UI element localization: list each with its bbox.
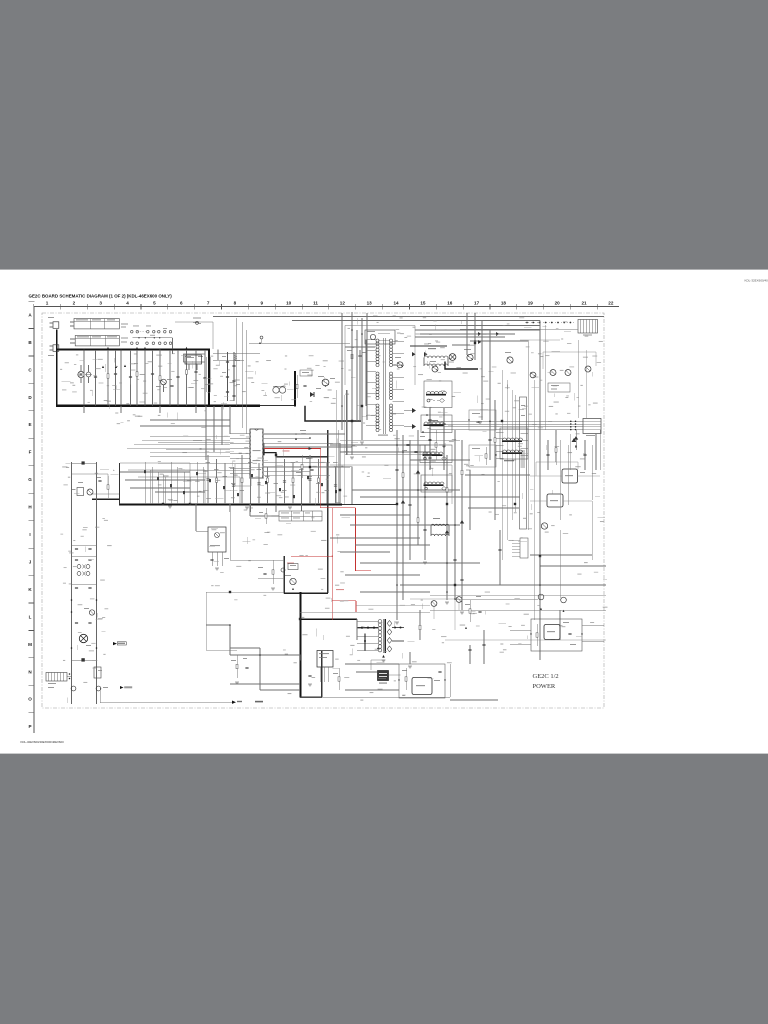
standby ic parts	[308, 675, 311, 676]
red net bottom stub	[355, 601, 357, 612]
top ruler tick marks	[33, 304, 35, 310]
filter pin stubs	[70, 321, 74, 323]
thick drop from transformer	[294, 371, 296, 407]
staircase wire b	[138, 477, 240, 504]
filter labels right	[121, 324, 128, 325]
relay drive wires	[371, 660, 401, 675]
red net feedback horizontal	[264, 448, 320, 450]
right rail vertical long	[539, 321, 541, 621]
right verticals cluster	[501, 370, 503, 560]
warning triangle d	[102, 366, 104, 368]
svg-text:E: E	[28, 422, 31, 427]
svg-text:12: 12	[340, 300, 346, 305]
ladder rung dark sq	[72, 659, 97, 661]
controller IC6100 scalloped sides	[249, 431, 252, 435]
AC thick bus top rail	[57, 349, 209, 351]
svg-text:J: J	[29, 559, 32, 564]
bottom right small parts	[469, 600, 471, 622]
extra caps	[395, 469, 398, 470]
transformer T6201 block	[424, 381, 452, 408]
sec rect diode2	[412, 424, 416, 429]
pfc parts cluster	[318, 376, 324, 377]
varistor pair lower	[77, 572, 81, 576]
varistor partner	[86, 372, 91, 377]
sec caps2	[443, 408, 445, 470]
opto wires	[530, 476, 600, 501]
red label mid	[287, 563, 294, 564]
fb region wires	[230, 559, 284, 561]
extra diodes	[416, 470, 420, 474]
board outline dash-dot frame	[42, 313, 604, 708]
transformer T6302 pins	[496, 431, 504, 433]
upper right wires frame	[520, 340, 596, 369]
ladder left rail	[71, 462, 73, 704]
bold corner top right of T6201	[445, 362, 478, 370]
pfc small parts	[167, 379, 172, 380]
controller IC6100 body	[250, 429, 263, 478]
standby transformer pins	[357, 621, 378, 623]
dotted feed row	[525, 322, 576, 324]
transformer T6100 right winding lower	[389, 372, 392, 375]
loop wire upper rect	[345, 326, 415, 386]
center vertical bundle	[335, 390, 337, 504]
red label lower	[336, 589, 344, 590]
red label near coil	[283, 450, 290, 451]
bus extension medium	[260, 405, 296, 407]
IC6100 right pins upper	[264, 433, 296, 435]
svg-text:11: 11	[313, 300, 318, 305]
upper right box	[548, 383, 570, 392]
red junction dot2	[332, 556, 333, 557]
connector link to ladder	[67, 675, 72, 677]
right long verticals	[544, 325, 546, 430]
svg-text:16: 16	[447, 300, 453, 305]
svg-text:10: 10	[286, 300, 292, 305]
right area wires	[430, 609, 606, 611]
svg-text:22: 22	[608, 300, 614, 305]
svg-text:5: 5	[153, 300, 156, 305]
sec rect diode1	[412, 408, 416, 413]
ladder caps row b	[72, 555, 97, 557]
wire junction small comp	[259, 342, 261, 344]
extra junction dots	[396, 444, 398, 446]
svg-text:P: P	[28, 724, 31, 729]
q small upper right	[550, 370, 556, 376]
filter labels small	[133, 325, 139, 328]
startup parts	[98, 480, 101, 481]
fb small parts	[272, 560, 274, 584]
white schematic sheet	[0, 270, 768, 754]
photo circle a	[71, 686, 76, 691]
dark stub right mid	[539, 556, 541, 584]
svg-text:2: 2	[73, 300, 76, 305]
standby bold hook	[364, 634, 366, 651]
relay small dark box	[378, 671, 389, 681]
bus top wire right half	[292, 320, 540, 322]
ladder caps row a	[72, 544, 97, 546]
bottom mid wires	[205, 592, 207, 650]
staircase wire c	[330, 465, 452, 504]
AC inlet plug lower	[53, 345, 59, 352]
junction dots on top rail	[83, 349, 85, 351]
cap symbols on dividers	[94, 376, 97, 377]
input divider vertical wires	[83, 350, 85, 406]
svg-text:+: +	[113, 468, 115, 472]
output wire bundle	[430, 420, 583, 422]
connector CN6004 4pin	[583, 419, 601, 434]
regulator IC6500 box	[208, 527, 226, 552]
relay RY6001 box	[184, 354, 206, 362]
svg-text:L: L	[29, 614, 32, 619]
warning triangle e	[115, 366, 117, 368]
right small circles pair	[538, 594, 544, 600]
center long verticals	[337, 430, 339, 504]
wire from rail to caps	[217, 350, 219, 361]
thermistor TH6001 sym	[213, 352, 260, 354]
supplementary wire mesh	[213, 316, 604, 318]
extra diode row upper right	[478, 332, 481, 336]
standby transformer T6301 winding	[378, 620, 382, 624]
choke L6201 crown rows	[424, 356, 428, 358]
IC6100 vertical drops	[229, 406, 231, 434]
sec circuit rect b	[469, 445, 496, 467]
bottom right wires	[410, 599, 606, 640]
svg-text:20: 20	[555, 300, 561, 305]
connector CN6003 hatched	[578, 320, 598, 334]
h wires mid left	[150, 435, 230, 437]
feedback parts right of IC	[295, 433, 297, 435]
varistor pair upper	[77, 565, 81, 569]
svg-text:4: 4	[126, 300, 129, 305]
gnd under sec bus	[168, 506, 172, 508]
wires upper right section	[415, 336, 505, 338]
component value labels texture	[172, 352, 175, 355]
left ruler line	[33, 307, 35, 734]
IC6100 left pin stubs long	[150, 435, 230, 437]
bottom mid parts	[236, 655, 238, 678]
standby thick vertical rail	[299, 592, 301, 698]
main thick bus B- rail	[56, 405, 260, 407]
relay wire mid	[133, 337, 173, 339]
AC input thick bus vertical	[56, 330, 58, 407]
svg-text:F: F	[29, 450, 32, 455]
junction dots on bus	[83, 405, 85, 407]
red net mid horizontal	[320, 507, 355, 509]
controller IC6100 label	[253, 450, 261, 451]
ladder caps row d	[75, 622, 78, 623]
opto frame wire	[536, 462, 578, 476]
transformer T6100 left winding	[376, 339, 379, 342]
line filter block LF6001	[74, 319, 119, 329]
mid region h wire	[206, 591, 284, 593]
AC thick rail right drop	[208, 349, 210, 407]
heatsink lines	[205, 357, 207, 392]
aux winding wires	[150, 469, 250, 471]
secondary thick bus	[119, 503, 342, 505]
warning triangle a	[107, 347, 109, 349]
transformer T6100 left winding lower	[376, 372, 379, 375]
resistor symbols on dividers	[107, 360, 109, 392]
switcher block Q6102	[365, 330, 395, 344]
dark wire segment	[410, 345, 447, 347]
long wire row C	[249, 342, 350, 344]
multiwire connector left	[520, 538, 528, 558]
svg-text:18: 18	[501, 300, 507, 305]
transformer right pins	[393, 340, 405, 342]
bundle junction dots	[570, 421, 572, 423]
secondary bus extension	[342, 503, 396, 505]
opto PH6301	[562, 469, 578, 483]
svg-text:KDL-32EX600/40EX600/46EX600: KDL-32EX600/40EX600/46EX600	[745, 279, 768, 283]
upper right q Q6201	[467, 354, 473, 360]
hanging labels	[206, 461, 211, 464]
wire bundle to connector	[460, 328, 578, 330]
fet circle with x	[449, 354, 456, 361]
AC inlet plug upper	[53, 322, 59, 329]
svg-text:7: 7	[207, 300, 210, 305]
standby bold pin row	[357, 627, 378, 629]
bottom right long runs	[430, 594, 606, 596]
transformer T6100 right winding low2	[389, 404, 392, 407]
sec area small comps	[406, 444, 409, 445]
left ruler tick marks	[29, 300, 35, 302]
standby thick branch	[300, 618, 357, 620]
vcc wire long	[120, 463, 190, 504]
transformer T6302 block	[500, 428, 528, 459]
signal table block	[279, 511, 322, 521]
svg-text:8: 8	[234, 300, 237, 305]
sec circuit rect a	[469, 410, 496, 430]
dark step at coil exit	[263, 449, 265, 456]
degauss circle row upper	[131, 330, 134, 333]
right rail vertical 2	[527, 340, 529, 530]
reg transistor Q6301	[541, 523, 547, 529]
drive transistor Q6103	[397, 362, 403, 368]
fb circle small	[281, 568, 285, 572]
dark junction squares	[351, 420, 353, 422]
long verticals left of IC	[235, 318, 237, 406]
mid h wire 467	[250, 467, 350, 469]
svg-text:9: 9	[261, 300, 264, 305]
photo circle b	[96, 686, 101, 691]
ladder comp small box	[94, 667, 101, 678]
red net branch to left	[291, 555, 332, 557]
svg-text:GE2C 1/2: GE2C 1/2	[533, 673, 559, 680]
table feed wire	[250, 515, 279, 517]
svg-text:15: 15	[420, 300, 426, 305]
fuse F6001	[196, 321, 199, 324]
transformer T6100 core lines	[382, 338, 384, 434]
top ruler line	[34, 306, 620, 308]
svg-text:17: 17	[474, 300, 480, 305]
transformer feed wires left	[365, 340, 367, 407]
aux supply box bottom right	[531, 619, 582, 651]
svg-text:GE2C BOARD SCHEMATIC DIAGRAM (: GE2C BOARD SCHEMATIC DIAGRAM (1 OF 2) (K…	[29, 294, 173, 299]
left extension hanging stubs	[144, 462, 146, 504]
signal flag EX02 b	[120, 686, 124, 689]
secondary bus left drop	[119, 463, 121, 504]
startup transistor Q6005	[87, 489, 93, 495]
svg-text:14: 14	[393, 300, 399, 305]
warning triangle b	[136, 347, 138, 349]
small diode col	[574, 436, 578, 440]
pfc transistor Q6101	[322, 379, 329, 386]
aux box wires	[582, 624, 604, 626]
bottom right transistors	[431, 601, 437, 607]
red net long vertical B	[355, 508, 357, 571]
res by table	[265, 508, 267, 524]
bottom long wires	[356, 619, 358, 640]
cap bank labels	[222, 355, 226, 358]
cap bank C6011	[233, 352, 235, 401]
fb transistor Q6110	[290, 578, 296, 584]
extra ground symbols	[395, 622, 399, 624]
red net stub at F row	[356, 570, 372, 572]
red net long vertical A	[331, 508, 333, 620]
fuse F6001 loop wire	[175, 322, 213, 349]
thermistor X circle	[79, 634, 87, 642]
svg-text:19: 19	[528, 300, 534, 305]
IC6100 bottom exit	[235, 464, 251, 486]
mid horizontal wires extension	[264, 433, 345, 435]
choke L6503 crown block	[431, 524, 435, 526]
degauss circle row lower	[131, 342, 134, 345]
right mid verticals extra	[559, 440, 561, 520]
dark horizontal under coil	[264, 453, 328, 457]
svg-text:G: G	[28, 477, 32, 482]
gate drive parts	[351, 345, 353, 368]
upper right q Q6203	[530, 372, 536, 378]
junction dots on relay wire	[138, 337, 139, 338]
varistor circle pair	[78, 371, 84, 377]
warning triangle g	[185, 347, 187, 349]
wire to relay	[172, 338, 174, 354]
signal flag EX02 a	[113, 642, 117, 645]
staircase wire a	[128, 470, 205, 504]
standby transformer core	[383, 619, 385, 653]
opto PH6501	[412, 678, 432, 695]
line filter block LF6002	[75, 336, 119, 346]
red junction dot	[320, 448, 321, 449]
standby bottom link	[300, 696, 322, 698]
warning triangle f	[124, 365, 126, 367]
transformer left pins	[366, 339, 376, 341]
standby gnd	[382, 655, 385, 658]
opto PH6502	[544, 625, 560, 640]
output rect parts	[405, 668, 407, 690]
junction dots on sec bus	[162, 504, 164, 506]
IC6500 feed	[196, 530, 208, 532]
pfc diode D6100	[310, 392, 314, 397]
hanging stub dark ticks	[144, 470, 146, 473]
bottom wire to arrows	[100, 702, 232, 704]
bridge rectifier block	[185, 355, 202, 364]
transformer T6100 left winding low2	[376, 404, 379, 407]
dash row upper	[137, 331, 160, 333]
sec diode D6204	[572, 438, 577, 442]
ladder rung 1	[72, 462, 97, 464]
sec caps	[429, 408, 431, 470]
ladder junctions	[71, 599, 73, 601]
ladder marks	[71, 647, 73, 649]
IC6100 left pin wires	[230, 433, 250, 435]
startup wires	[72, 474, 120, 494]
transformer T6201 lower block	[421, 415, 452, 433]
controller IC6100 notch	[255, 429, 259, 430]
pfc choke L6100	[273, 387, 279, 393]
red net vertical drop	[319, 449, 321, 508]
ladder caps row c	[72, 583, 97, 585]
winding block four	[421, 475, 452, 492]
drive transistor Q6104	[432, 366, 438, 372]
earth ground hatch	[234, 356, 237, 361]
warning triangle c	[144, 347, 146, 349]
bus step down segment	[305, 406, 361, 421]
svg-text:O: O	[28, 697, 32, 702]
fb parts box	[288, 564, 298, 570]
winding labels bold	[428, 420, 438, 421]
output rect box	[399, 664, 445, 698]
standby diamond column	[387, 621, 392, 627]
connector CN6001 hatched	[46, 673, 67, 682]
svg-text:M: M	[28, 642, 32, 647]
lower box left rail	[283, 556, 285, 593]
opto PH6302	[547, 494, 563, 507]
ladder right rail	[96, 462, 98, 704]
svg-text:KDL-32EX600/40EX600/46EX600: KDL-32EX600/40EX600/46EX600	[21, 740, 65, 744]
parts under IC6500	[210, 559, 213, 560]
tall cap block	[520, 397, 527, 529]
svg-text:6: 6	[180, 300, 183, 305]
IC6500 pins	[211, 552, 213, 566]
bus hanging component strings	[207, 455, 209, 504]
bottom arrow marks	[232, 701, 236, 704]
cap bank C6010	[227, 352, 229, 401]
comp cluster right of IC	[301, 455, 303, 478]
snub diode pair	[412, 352, 416, 356]
transformer T6100 right winding	[389, 339, 392, 342]
snubber box	[300, 370, 312, 376]
svg-text:13: 13	[367, 300, 373, 305]
svg-text:21: 21	[581, 300, 587, 305]
svg-text:I: I	[29, 532, 30, 537]
stub wires texture	[115, 386, 117, 389]
opto feed wires	[263, 443, 265, 449]
varistor stubs	[80, 365, 82, 371]
svg-text:3: 3	[99, 300, 102, 305]
startup fet box	[77, 488, 84, 496]
pfc dark vertical rail	[327, 430, 329, 593]
ladder fet Q6002	[89, 610, 94, 615]
startup dark link	[92, 498, 119, 500]
IC6100 right pins lower	[264, 461, 330, 463]
red net bottom horizontal	[332, 600, 356, 602]
svg-text:1: 1	[46, 300, 49, 305]
pfc transistor Q6001	[161, 379, 167, 385]
lower box bottom rail	[284, 592, 328, 594]
upper right q Q6202	[507, 357, 513, 363]
svg-text:POWER: POWER	[533, 683, 556, 690]
winding block three	[420, 445, 452, 463]
right rail vertical 3	[514, 395, 516, 512]
standby sw IC6502 box	[317, 651, 333, 668]
extra resistors	[402, 460, 404, 490]
transformer label	[378, 435, 388, 436]
q right Q6305	[585, 366, 591, 372]
standby inner vertical	[321, 651, 323, 698]
aux box parts	[536, 624, 538, 646]
